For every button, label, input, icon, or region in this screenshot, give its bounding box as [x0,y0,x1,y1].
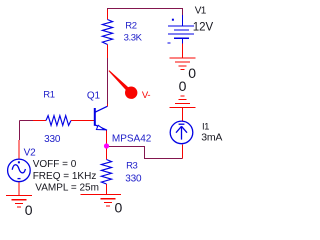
svg-text:V2: V2 [24,148,36,159]
svg-text:R2: R2 [125,21,136,32]
svg-text:0: 0 [115,200,123,216]
svg-text:Q1: Q1 [87,91,101,102]
svg-text:V1: V1 [195,6,207,17]
svg-text:VAMPL = 25m: VAMPL = 25m [35,183,99,194]
svg-text:330: 330 [44,134,61,145]
svg-text:0: 0 [25,202,33,218]
svg-text:V-: V- [142,90,151,101]
svg-text:3.3K: 3.3K [124,33,143,44]
svg-text:12V: 12V [193,21,214,33]
svg-text:0: 0 [188,65,196,81]
svg-text:MPSA42: MPSA42 [112,134,152,145]
svg-text:R1: R1 [43,89,54,100]
svg-text:FREQ = 1KHz: FREQ = 1KHz [33,171,97,182]
svg-text:3mA: 3mA [201,132,222,144]
svg-text:330: 330 [125,173,142,184]
svg-text:R3: R3 [126,161,137,172]
svg-text:0: 0 [179,78,187,94]
svg-text:VOFF = 0: VOFF = 0 [33,159,77,170]
